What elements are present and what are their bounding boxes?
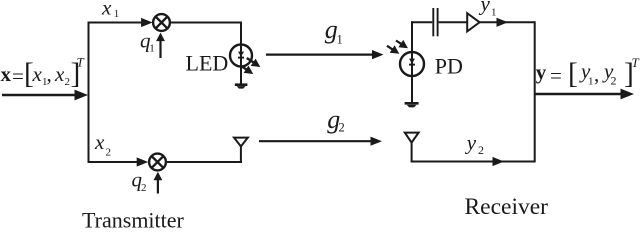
svg-text:x: x	[101, 0, 112, 20]
svg-text:x: x	[32, 62, 43, 86]
svg-text:T: T	[632, 55, 640, 70]
svg-text:LED: LED	[186, 50, 229, 75]
svg-text:y: y	[536, 60, 547, 84]
svg-text:x: x	[1, 62, 12, 86]
svg-text:1: 1	[114, 8, 120, 20]
svg-text:PD: PD	[435, 53, 463, 78]
svg-text:=: =	[12, 64, 24, 88]
svg-text:1: 1	[491, 7, 497, 19]
svg-text:y: y	[465, 131, 477, 155]
svg-text:2: 2	[65, 76, 71, 88]
svg-text:1: 1	[337, 33, 343, 47]
svg-text:2: 2	[141, 182, 147, 194]
svg-text:2: 2	[611, 74, 617, 88]
svg-text:,: ,	[594, 62, 599, 86]
svg-text:x: x	[54, 62, 65, 86]
svg-text:=: =	[550, 63, 562, 87]
svg-text:[: [	[568, 58, 578, 90]
svg-text:2: 2	[478, 143, 484, 157]
svg-text:T: T	[77, 55, 85, 70]
svg-text:Transmitter: Transmitter	[82, 207, 185, 229]
svg-text:y: y	[479, 0, 491, 16]
svg-text:1: 1	[149, 43, 155, 55]
svg-text:2: 2	[339, 121, 345, 135]
svg-text:x: x	[94, 130, 105, 154]
svg-text:Receiver: Receiver	[465, 194, 549, 220]
svg-text:1: 1	[588, 76, 594, 88]
svg-text:2: 2	[106, 147, 112, 159]
svg-text:,: ,	[47, 62, 52, 86]
